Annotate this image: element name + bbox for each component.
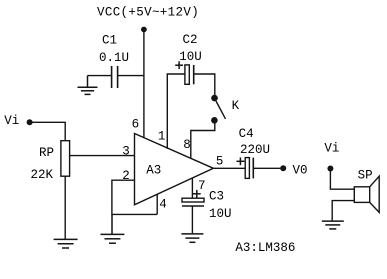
svg-text:C1: C1 — [102, 34, 117, 48]
wire: speaker minus lead to ground — [332, 201, 354, 221]
wire: VCC rail down to pin 6 — [143, 30, 145, 139]
wire: pin 7 down to C3 — [191, 178, 193, 199]
capacitor C2 — [185, 65, 194, 84]
svg-text:V0: V0 — [293, 163, 308, 177]
wire: C3 to ground — [191, 206, 193, 233]
svg-text:5: 5 — [216, 155, 224, 169]
svg-text:10U: 10U — [179, 50, 202, 64]
potentiometer RP body — [61, 141, 70, 177]
wire: pin 5 output to C4 — [213, 167, 245, 169]
svg-text:Vi: Vi — [4, 114, 19, 128]
wire: C4 to output node — [253, 167, 280, 169]
ground: C1 — [78, 76, 98, 95]
svg-text:220U: 220U — [240, 143, 270, 157]
switch K top contact — [211, 95, 218, 102]
svg-text:C2: C2 — [183, 33, 198, 47]
svg-text:C3: C3 — [209, 190, 224, 204]
svg-text:22K: 22K — [31, 168, 54, 182]
node: Vi input — [27, 119, 33, 125]
svg-text:C4: C4 — [239, 127, 254, 141]
capacitor C1 — [112, 66, 118, 88]
ground: SP — [322, 221, 344, 229]
node: V0 output — [280, 165, 286, 171]
svg-text:8: 8 — [183, 138, 191, 152]
svg-text:K: K — [232, 99, 240, 113]
svg-text:1: 1 — [158, 130, 166, 144]
speaker SP — [354, 176, 379, 212]
svg-text:RP: RP — [39, 146, 54, 160]
svg-text:4: 4 — [159, 198, 167, 212]
svg-text:7: 7 — [198, 179, 206, 193]
svg-text:6: 6 — [132, 118, 140, 132]
wire: C1 left lead — [88, 75, 112, 77]
polarity + for C4 — [237, 157, 245, 165]
wire: pin 4 down to ground junction — [156, 194, 158, 214]
node: speaker Vi terminal — [327, 166, 333, 172]
ground: RP — [54, 239, 78, 248]
svg-text:SP: SP — [358, 169, 373, 183]
ground: C3 — [181, 234, 203, 242]
svg-text:A3: A3 — [146, 164, 161, 178]
wire: switch bottom to pin 8 — [191, 122, 215, 159]
svg-text:0.1U: 0.1U — [99, 51, 129, 65]
op-amp A3 — [135, 134, 214, 205]
capacitor C3 — [182, 198, 204, 206]
wire: pin 2 loop to ground junction — [112, 180, 157, 214]
node: VCC junction — [141, 27, 147, 33]
svg-text:VCC(+5V~+12V): VCC(+5V~+12V) — [97, 5, 199, 19]
wire: RP bottom to ground — [64, 176, 66, 239]
polarity + for C3 — [193, 190, 201, 198]
wire: C1 right lead — [118, 75, 144, 77]
svg-text:3: 3 — [122, 144, 130, 158]
svg-text:10U: 10U — [209, 207, 232, 221]
wire: Vi node to speaker plus lead — [330, 169, 354, 190]
wire: Vi to RP top — [30, 122, 66, 141]
switch K bottom contact — [211, 117, 218, 124]
svg-text:2: 2 — [122, 169, 130, 183]
wire: pin 1 up to C2 left lead — [167, 74, 184, 149]
wire: RP wiper to pin 3 — [70, 155, 135, 157]
capacitor C4 — [245, 158, 253, 179]
wire: C2 right lead to switch — [194, 74, 215, 96]
polarity + for C2 — [175, 61, 183, 69]
switch K blade — [216, 101, 226, 119]
svg-text:A3:LM386: A3:LM386 — [235, 241, 295, 255]
ground: A3 pins 2 and 4 — [101, 214, 125, 243]
svg-text:Vi: Vi — [324, 141, 339, 155]
